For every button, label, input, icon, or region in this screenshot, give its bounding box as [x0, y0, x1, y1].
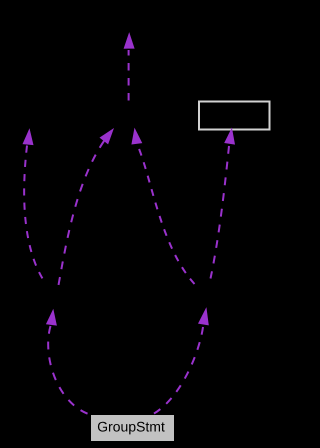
arrowhead C	[46, 309, 57, 326]
edge E: right-mid node to center node (dashed)	[137, 144, 195, 284]
edge A: left-mid node to far-left node (dashed)	[24, 146, 42, 279]
arrowhead B	[100, 128, 115, 144]
arrowhead D	[198, 307, 209, 325]
edge G: center node to top node (dashed, vertical)	[128, 50, 130, 101]
arrowhead E	[131, 128, 142, 145]
node: empty box (top right)	[199, 102, 270, 130]
arrowhead F	[224, 128, 235, 145]
node GroupStmt label text	[98, 422, 165, 435]
arrowhead A	[23, 128, 34, 145]
node GroupStmt (bottom, filled)	[91, 415, 174, 441]
arrowhead G	[124, 32, 135, 49]
edge F: right-mid node to empty box (dashed)	[211, 146, 230, 279]
edge D: GroupStmt to right-mid node (dashed)	[152, 327, 204, 415]
edge B: left-mid node to center node (dashed)	[59, 141, 105, 285]
edge C: GroupStmt to left-mid node (dashed)	[48, 326, 91, 415]
